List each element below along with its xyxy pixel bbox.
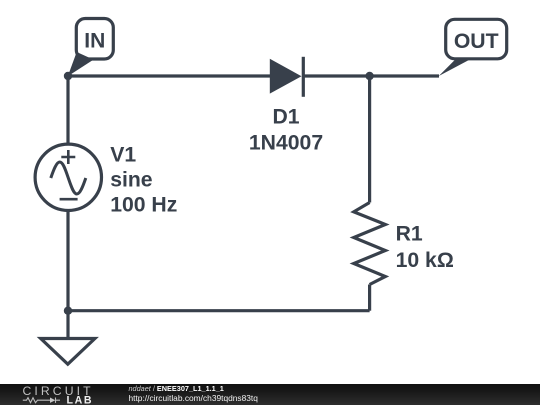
CircuitLab logo: [0, 384, 110, 405]
net flag OUT: [439, 19, 507, 76]
voltage source V1: [35, 144, 101, 210]
footer text: author / title and url: [129, 384, 258, 403]
svg-text:10 kΩ: 10 kΩ: [396, 249, 454, 272]
wire from V1 bottom to ground node: [66, 211, 69, 311]
svg-text:V1: V1: [110, 143, 136, 166]
wire from node B down to resistor R1 top: [368, 76, 371, 203]
net flag IN: [68, 19, 114, 77]
node C: junction dot at bottom rail / ground: [64, 307, 72, 315]
node B: junction dot at diode cathode / R1 top: [365, 72, 373, 80]
ground symbol: [41, 311, 95, 365]
node A: junction dot at IN: [64, 72, 72, 80]
label V1 sine 100 Hz: [110, 143, 177, 216]
resistor R1: [354, 203, 386, 285]
label R1 10 kOhm: [396, 223, 454, 272]
svg-text:R1: R1: [396, 223, 423, 246]
diode D1: [270, 57, 304, 97]
svg-text:1N4007: 1N4007: [249, 131, 323, 154]
wire from resistor R1 bottom to bottom rail: [368, 285, 371, 311]
svg-text:D1: D1: [272, 105, 299, 128]
wire from IN node down to V1 top: [66, 76, 69, 144]
svg-text:IN: IN: [84, 30, 105, 53]
svg-text:LAB: LAB: [67, 394, 94, 405]
wire from node B to OUT flag tail: [370, 74, 439, 77]
footer bar: [0, 384, 540, 405]
svg-text:100 Hz: 100 Hz: [110, 194, 177, 217]
label D1 1N4007: [249, 105, 323, 154]
svg-text:sine: sine: [110, 169, 153, 192]
wire bottom rail from ground node to resistor bottom: [68, 309, 370, 312]
wire from diode cathode to node B: [304, 74, 370, 77]
wire top horizontal from IN node to diode anode: [68, 74, 270, 77]
svg-text:OUT: OUT: [454, 30, 499, 53]
